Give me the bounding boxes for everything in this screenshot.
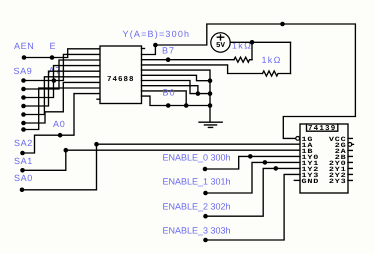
node SA8	[21, 87, 26, 92]
svg-text:74688: 74688	[107, 75, 135, 84]
U2 pin names right	[329, 136, 347, 185]
node on top rail	[280, 22, 285, 27]
ground	[199, 122, 222, 127]
node 1Y1	[263, 160, 268, 165]
node SA2	[20, 151, 25, 156]
wire SA2 to U1 pin9	[23, 94, 101, 153]
wire SA7 to U1 pin4	[24, 66, 101, 98]
wire SA1 to U2 1B	[23, 150, 301, 170]
node AEN	[22, 55, 27, 60]
node SA0	[20, 188, 25, 193]
wire B0 U1 pin to ground rail	[142, 96, 211, 105]
node ENABLE_2	[203, 214, 208, 219]
wire B2 U1 pin to ground rail	[142, 86, 198, 94]
svg-text:Y(A=B)=300h: Y(A=B)=300h	[123, 29, 191, 39]
node SA1 corner	[64, 148, 69, 153]
U2 pin 1G bubble	[296, 137, 300, 141]
svg-text:SA9: SA9	[14, 66, 33, 76]
node SA5	[21, 112, 26, 117]
node ENABLE_1	[203, 191, 208, 196]
svg-text:74139: 74139	[308, 124, 337, 133]
svg-text:E: E	[50, 41, 56, 51]
svg-text:5V: 5V	[216, 42, 226, 50]
node B2 junction	[196, 91, 201, 96]
wire AEN to E	[24, 57, 52, 59]
node ground rail low	[208, 103, 213, 108]
svg-text:1kΩ: 1kΩ	[262, 55, 282, 65]
node E	[50, 55, 55, 60]
svg-text:AEN: AEN	[14, 41, 34, 51]
wire 5V to pullup rail	[231, 41, 291, 43]
chip U1 74688	[97, 46, 145, 104]
node B1 junction	[184, 103, 189, 108]
svg-text:ENABLE_2 302h: ENABLE_2 302h	[163, 201, 231, 211]
svg-text:SA2: SA2	[14, 138, 33, 148]
wire B6 U1 pin16 to R2	[142, 65, 263, 74]
wire B5 U1 pin to ground rail	[142, 70, 211, 81]
wire SA5 to U1 pin6	[24, 77, 101, 115]
node SA6	[21, 104, 26, 109]
node ENABLE_3	[203, 238, 208, 243]
node A0	[58, 133, 63, 138]
svg-text:B7: B7	[162, 46, 175, 56]
wire ENABLE_1 to U2 1Y1	[206, 162, 301, 193]
U2 right stubs	[348, 138, 352, 180]
node SA7	[21, 95, 26, 100]
svg-text:2Y3: 2Y3	[329, 178, 347, 185]
wire B4 U1 pin to ground rail	[142, 75, 211, 80]
source V1 5V	[211, 33, 230, 52]
resistor R2 1k	[263, 71, 291, 76]
wire E to U1 pin1	[52, 49, 100, 58]
node A7	[52, 78, 57, 83]
wire B7 U1 pin18 to R1	[142, 59, 235, 61]
node 1Y2	[274, 166, 279, 171]
wire SA0 to U2 1A	[22, 144, 300, 190]
node R1 top	[250, 40, 255, 45]
svg-text:ENABLE_1 301h: ENABLE_1 301h	[163, 177, 231, 187]
node SA0 riser junction	[94, 142, 99, 147]
node SA9	[21, 78, 26, 83]
svg-text:B0: B0	[163, 87, 176, 97]
wire Y output U1 pin19 to U2 1G	[142, 24, 356, 138]
wire ENABLE_3 to U2 1Y3	[206, 174, 301, 240]
wire SA6 to U1 pin5	[24, 71, 101, 106]
wire SA8 to U1 pin3	[24, 60, 101, 89]
U1 pin20 VCC stub	[142, 48, 145, 50]
U2 pin names left	[302, 136, 320, 185]
svg-text:SA0: SA0	[14, 173, 33, 183]
wire R2 to 5V node	[290, 42, 292, 73]
wire ground rail	[209, 81, 211, 122]
wire B3 U1 pin to ground rail	[142, 81, 211, 94]
U2 GND stub	[294, 179, 300, 181]
node 1Y0	[248, 154, 253, 159]
node Y corner	[153, 43, 158, 48]
svg-text:ENABLE_3 303h: ENABLE_3 303h	[163, 226, 231, 236]
wire SA4 to U1 pin7	[24, 82, 101, 123]
wire B1 U1 pin to ground rail	[142, 91, 187, 106]
node SA3	[21, 127, 26, 132]
U1 pin10 GND stub	[97, 98, 100, 100]
wire SA3 to U1 pin8	[24, 88, 101, 130]
resistor R1 1k	[234, 57, 252, 62]
svg-text:A0: A0	[53, 119, 66, 129]
svg-text:GND: GND	[302, 178, 320, 185]
node B0	[166, 103, 171, 108]
node SA4	[21, 121, 26, 126]
chip U2 74139	[294, 124, 353, 193]
wire R1 to 5V node	[251, 42, 253, 59]
wire ENABLE_2 to U2 1Y2	[206, 168, 301, 216]
node ENABLE_0	[203, 167, 208, 172]
svg-text:SA1: SA1	[14, 156, 33, 166]
svg-text:ENABLE_0 300h: ENABLE_0 300h	[163, 153, 231, 163]
wire SA9 to U1 pin2	[24, 54, 101, 80]
U2 pin 2G bubble	[348, 143, 352, 147]
node SA1	[20, 168, 25, 173]
node ground rail top	[208, 78, 213, 83]
node ground rail mid	[208, 91, 213, 96]
wire ENABLE_0 to U2 1Y0	[205, 156, 300, 169]
node B7	[166, 57, 171, 62]
